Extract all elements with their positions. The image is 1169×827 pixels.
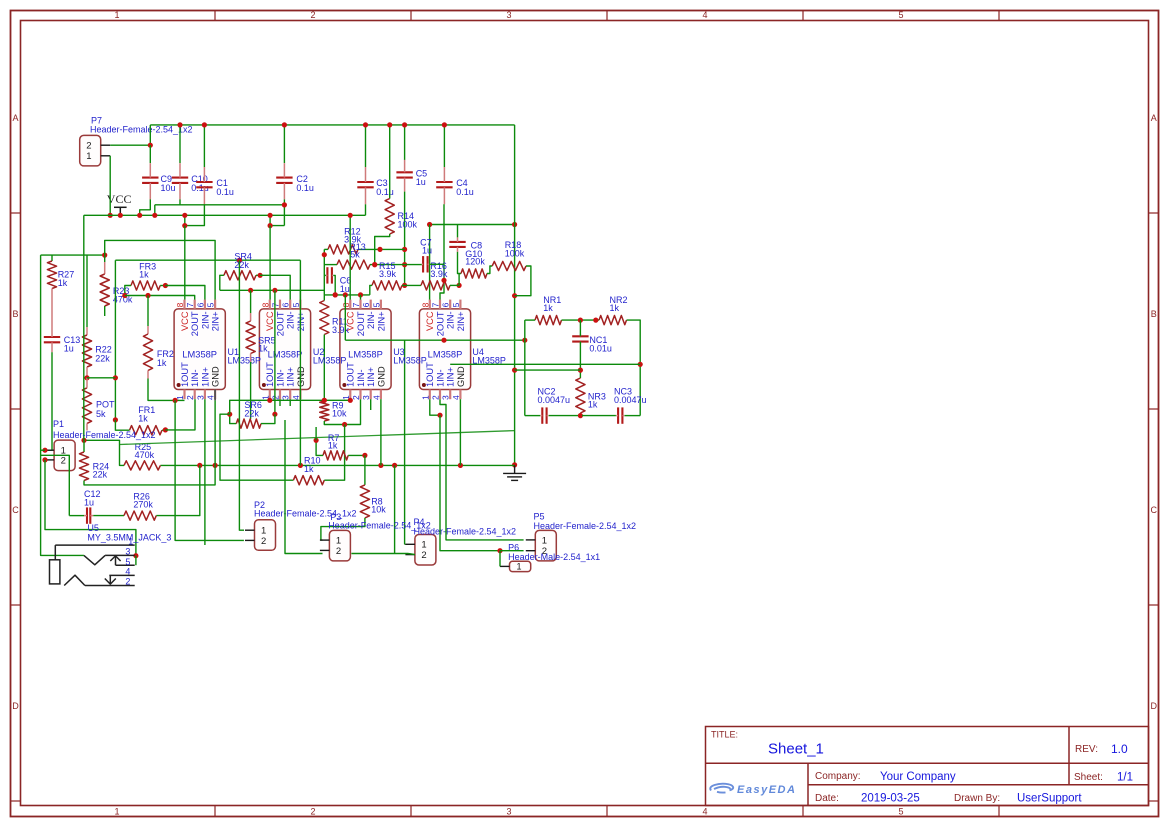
resistor R14 — [385, 199, 394, 235]
wire y440 wire — [84, 440, 120, 444]
wire FR2 top — [147, 296, 149, 327]
svg-text:LM358P: LM358P — [348, 350, 383, 360]
wire C8 top — [457, 225, 459, 238]
wire R15 left — [370, 285, 372, 295]
node 640/364 — [638, 362, 643, 367]
wire R12 right wire — [358, 248, 405, 250]
resistor R16 — [421, 281, 450, 290]
node VCC stem — [118, 213, 123, 218]
svg-text:470k: 470k — [135, 450, 155, 460]
svg-text:120k: 120k — [465, 256, 485, 266]
wire y290 wire — [220, 289, 324, 291]
capacitor C6 — [326, 267, 328, 283]
node NR3/bot — [578, 413, 583, 418]
svg-text:1/1: 1/1 — [1117, 772, 1133, 784]
wire R14 top lead — [389, 125, 391, 199]
wire FR3 right — [160, 285, 165, 287]
svg-text:5: 5 — [291, 302, 301, 307]
wire y264 wire — [370, 264, 423, 266]
wire U2.1 wire — [230, 400, 351, 414]
svg-text:10k: 10k — [332, 409, 347, 419]
svg-text:5: 5 — [898, 10, 903, 20]
svg-text:5: 5 — [125, 557, 130, 567]
node bus/C1 — [202, 122, 207, 127]
wire C7 right — [429, 263, 444, 265]
node SR6 right — [272, 412, 277, 417]
svg-text:B: B — [1151, 309, 1157, 319]
svg-text:1: 1 — [86, 151, 91, 162]
wire U1 GND drop — [214, 400, 216, 465]
wire v440 drop — [440, 415, 500, 551]
node bus/394 — [392, 463, 397, 468]
svg-text:5: 5 — [451, 302, 461, 307]
svg-text:4: 4 — [206, 395, 216, 400]
svg-text:1k: 1k — [139, 270, 149, 280]
wire y255 wire — [41, 254, 105, 256]
wire P1.2 path — [45, 460, 136, 556]
svg-text:1IN+: 1IN+ — [286, 367, 296, 387]
node 324/255 — [322, 252, 327, 257]
node bus/C3 — [363, 122, 368, 127]
node 400/R9 — [322, 398, 327, 403]
svg-text:A: A — [12, 113, 18, 123]
svg-text:2IN-: 2IN- — [200, 311, 210, 329]
node bus/R14 — [387, 122, 392, 127]
wire R8 top — [364, 455, 366, 485]
header — [54, 440, 75, 471]
resistor POT — [82, 388, 91, 424]
wire C5 column — [404, 192, 406, 286]
svg-text:4: 4 — [371, 395, 381, 400]
wire U4.1 path — [430, 399, 440, 415]
resistor NR1 — [535, 316, 562, 325]
svg-text:LM358P: LM358P — [393, 356, 427, 366]
resistor FR3 — [131, 281, 160, 290]
svg-text:Your Company: Your Company — [880, 771, 956, 783]
node R9b — [342, 422, 347, 427]
resistor R27 — [47, 261, 56, 289]
wire C9 bottom — [140, 199, 151, 215]
svg-text:4: 4 — [702, 806, 707, 816]
wire R8 bottom — [321, 518, 365, 540]
svg-text:LM358P: LM358P — [428, 350, 463, 360]
header P6 — [510, 561, 531, 571]
wire R24 bottom — [84, 465, 215, 485]
svg-text:2: 2 — [185, 395, 195, 400]
node FR1 right — [163, 427, 168, 432]
wire C8 bottom — [458, 252, 462, 274]
svg-text:1u: 1u — [422, 246, 432, 256]
svg-text:2IN-: 2IN- — [446, 311, 456, 329]
resistor FR1 — [130, 426, 163, 435]
node bus/C4 — [442, 122, 447, 127]
resistor NR2 — [599, 316, 627, 325]
svg-text:7: 7 — [431, 302, 441, 307]
svg-text:0.1u: 0.1u — [456, 187, 474, 197]
wire C3 bottom — [365, 204, 367, 215]
header P7 — [80, 135, 101, 166]
svg-text:3: 3 — [281, 395, 291, 400]
svg-text:REV:: REV: — [1075, 744, 1098, 755]
svg-text:P1: P1 — [53, 419, 64, 429]
node y224 right — [512, 222, 517, 227]
svg-text:Date:: Date: — [815, 793, 839, 804]
svg-text:0.01u: 0.01u — [589, 344, 612, 354]
svg-text:U5: U5 — [87, 523, 99, 533]
svg-text:3: 3 — [441, 395, 451, 400]
wire R14 bottom — [375, 234, 390, 265]
wire y429 wire — [165, 399, 195, 430]
svg-text:4: 4 — [702, 10, 707, 20]
svg-text:10u: 10u — [161, 183, 176, 193]
svg-text:22k: 22k — [95, 353, 110, 363]
op-amp U4 LM358P — [419, 300, 470, 400]
wire jack5 link — [135, 556, 137, 566]
svg-text:2: 2 — [61, 455, 66, 466]
svg-text:5k: 5k — [350, 249, 360, 259]
svg-text:1: 1 — [114, 10, 119, 20]
wire P2.2 drop — [175, 400, 244, 540]
wire U1 VCC drop — [184, 226, 186, 300]
svg-text:6: 6 — [361, 302, 371, 307]
capacitor C1 — [196, 181, 212, 183]
svg-text:1k: 1k — [328, 441, 338, 451]
svg-text:1k: 1k — [58, 278, 68, 288]
wire C12-R26 — [93, 515, 124, 517]
wire R23 top lead — [104, 255, 106, 262]
node 400/U2.1 — [267, 398, 272, 403]
wire left column 324 — [323, 249, 325, 300]
node col/249 — [402, 247, 407, 252]
svg-text:2OUT: 2OUT — [356, 311, 366, 336]
node 400/U3.1 — [348, 398, 353, 403]
svg-text:5: 5 — [206, 302, 216, 307]
wire NR1 left vert — [524, 320, 526, 416]
capacitor C4 — [436, 181, 452, 183]
node y340/NR1 — [522, 338, 527, 343]
wire R7 left — [316, 440, 323, 455]
wire NR2 right — [627, 320, 641, 416]
node SR4 right — [258, 273, 263, 278]
wire P7 pin1 drop — [109, 156, 111, 216]
wire R7 right — [348, 454, 365, 456]
svg-text:0.1u: 0.1u — [216, 187, 234, 197]
svg-text:22k: 22k — [234, 260, 249, 270]
wire FR1 right — [162, 429, 165, 431]
wire FR3 left — [125, 286, 131, 296]
node 294/C6 — [333, 292, 338, 297]
svg-text:GND: GND — [376, 366, 386, 387]
node C7/R16 — [441, 278, 446, 283]
wire C6 right down — [333, 275, 335, 295]
wire R12 left — [324, 248, 328, 250]
svg-text:1u: 1u — [64, 343, 74, 353]
wire C2 top lead — [283, 125, 285, 163]
header — [535, 530, 556, 561]
wire P5.2 link — [500, 550, 524, 552]
svg-text:6: 6 — [195, 302, 205, 307]
node R24 top — [81, 438, 86, 443]
node R7 left — [314, 438, 319, 443]
wire U2.3 stub — [289, 399, 291, 406]
resistor R10 — [293, 476, 324, 485]
wire y240 wire — [105, 240, 215, 299]
wire R22 top — [86, 255, 88, 327]
node C2 node — [282, 202, 287, 207]
svg-text:1IN-: 1IN- — [275, 369, 285, 387]
resistor R11 — [320, 301, 329, 335]
svg-text:5: 5 — [371, 302, 381, 307]
node R7 right — [362, 453, 367, 458]
svg-text:8: 8 — [260, 302, 270, 307]
node R12w — [377, 247, 382, 252]
op-amp U3 LM358P — [340, 300, 391, 400]
node U4.1 jog — [437, 413, 442, 418]
svg-text:LM358P: LM358P — [228, 356, 262, 366]
svg-text:3: 3 — [506, 10, 511, 20]
node 294/U3.7 — [358, 292, 363, 297]
wire POT link — [87, 377, 115, 379]
capacitor C10 — [172, 177, 188, 179]
svg-text:2IN+: 2IN+ — [456, 311, 466, 331]
svg-text:1k: 1k — [543, 303, 553, 313]
capacitor C9 — [142, 177, 158, 179]
svg-text:1.0: 1.0 — [1111, 742, 1128, 756]
capacitor C2 — [276, 177, 292, 179]
svg-text:0.1u: 0.1u — [376, 187, 394, 197]
node P1.1 — [42, 448, 47, 453]
wire U3.7 stub link — [360, 295, 362, 300]
wire P4.1 link — [404, 543, 407, 545]
wire P3 under-box — [351, 553, 408, 555]
node y290/SR5 — [248, 288, 253, 293]
node NR2 left — [593, 318, 598, 323]
wire SR6 v — [274, 290, 276, 414]
svg-text:6: 6 — [441, 302, 451, 307]
wire P3.2/P4.2 wire — [285, 420, 323, 554]
svg-text:1k: 1k — [157, 358, 167, 368]
wire rail drop left — [83, 215, 85, 452]
wire C3 top lead — [365, 125, 367, 167]
wire R15-R16 link — [405, 284, 421, 286]
header — [415, 535, 436, 566]
resistor G10 120k — [461, 269, 487, 278]
wire R13 left — [324, 264, 337, 266]
resistor FR2 — [143, 334, 152, 371]
resistor R25 — [124, 461, 160, 470]
svg-text:10k: 10k — [371, 504, 386, 514]
wire C10 jog — [154, 205, 156, 216]
wire U1.3 drop — [204, 399, 206, 545]
node FR3 right — [163, 283, 168, 288]
node 400/U1.1 — [173, 398, 178, 403]
resistor R8 — [360, 485, 369, 518]
wire C12 left — [69, 515, 84, 517]
wire FR3r to U1.6 — [165, 286, 205, 300]
node P1.2 — [42, 457, 47, 462]
node y224 left — [427, 222, 432, 227]
svg-text:2: 2 — [310, 806, 315, 816]
wire diagonal — [120, 431, 515, 445]
svg-text:1: 1 — [128, 536, 133, 546]
svg-text:4: 4 — [451, 395, 461, 400]
node col/264 — [402, 262, 407, 267]
wire R10 right — [324, 425, 344, 481]
svg-text:1OUT: 1OUT — [346, 362, 356, 387]
svg-text:1IN+: 1IN+ — [200, 367, 210, 387]
node bus/C5 — [402, 122, 407, 127]
wire R9 bottom wire — [324, 399, 360, 424]
node 294/elbow — [343, 292, 348, 297]
svg-text:GND: GND — [211, 366, 221, 387]
wire U3.3 stub — [370, 399, 372, 410]
svg-text:1k: 1k — [610, 303, 620, 313]
svg-text:3.9k: 3.9k — [332, 325, 350, 335]
node C10/rail — [152, 213, 157, 218]
svg-text:D: D — [1151, 701, 1158, 711]
svg-text:EasyEDA: EasyEDA — [737, 784, 796, 796]
capacitor NC3 — [617, 407, 619, 423]
svg-text:1: 1 — [517, 562, 522, 572]
svg-text:2OUT: 2OUT — [190, 311, 200, 336]
svg-text:1u: 1u — [84, 498, 94, 508]
node bus/299 — [298, 463, 303, 468]
svg-text:270k: 270k — [133, 500, 153, 510]
wire NR bottom wire L — [525, 415, 540, 417]
wire U4.2 path — [440, 399, 524, 540]
op-amp U1 LM358P — [174, 300, 225, 400]
svg-text:1k: 1k — [138, 414, 148, 424]
svg-text:2: 2 — [421, 550, 426, 561]
node y295/FR2 — [145, 293, 150, 298]
svg-text:4: 4 — [291, 395, 301, 400]
node C9/rail — [137, 213, 142, 218]
wire SR6 left lead — [230, 414, 237, 423]
svg-text:2: 2 — [336, 546, 341, 557]
wire v115 drop — [114, 260, 116, 420]
wire NR bottom wire R — [625, 415, 641, 417]
node 120k/R16 — [457, 283, 462, 288]
node col/285 — [402, 283, 407, 288]
svg-text:100k: 100k — [505, 249, 525, 259]
node R22/POT — [84, 375, 89, 380]
wire C2 jog to rail — [270, 215, 284, 225]
svg-text:3: 3 — [125, 547, 130, 557]
resistor R7 — [323, 451, 348, 460]
wire y340 wire — [345, 339, 525, 341]
svg-text:VCC: VCC — [425, 311, 435, 331]
capacitor C12 — [86, 507, 88, 523]
wire NC1 bottom — [579, 342, 581, 378]
resistor R24 — [79, 452, 88, 481]
node bus/R24 — [213, 463, 218, 468]
wire SR5 bottom ext — [250, 362, 252, 419]
wire U4 VCC drop — [429, 225, 431, 300]
svg-text:Header-Female-2.54_1x2: Header-Female-2.54_1x2 — [90, 124, 193, 134]
svg-text:0.1u: 0.1u — [296, 183, 314, 193]
svg-text:2IN+: 2IN+ — [376, 311, 386, 331]
svg-text:1OUT: 1OUT — [180, 362, 190, 387]
op-amp U2 LM358P — [259, 300, 310, 400]
svg-text:22k: 22k — [244, 409, 259, 419]
node y290/SR6v — [272, 288, 277, 293]
wire NR3 bottom — [579, 413, 581, 416]
wire C4 top lead — [443, 125, 445, 167]
node bus/R26 — [197, 463, 202, 468]
wire C1 top lead — [203, 125, 205, 167]
node C2/rail — [268, 213, 273, 218]
node C2 jog — [268, 223, 273, 228]
wire C6 left up — [324, 274, 326, 276]
svg-text:1: 1 — [542, 535, 547, 546]
node 115/377 — [113, 375, 118, 380]
wire R23 bottom — [104, 306, 106, 316]
node y255/R23 — [102, 253, 107, 258]
svg-text:1k: 1k — [588, 400, 598, 410]
U1 GND stub — [214, 390, 216, 401]
wire bus drop to P7.2 — [149, 125, 151, 145]
svg-text:2: 2 — [86, 141, 91, 152]
svg-text:Company:: Company: — [815, 771, 861, 782]
wire top bus — [150, 124, 514, 126]
wire P4.1 riser — [404, 340, 406, 544]
node bus/U3gnd — [378, 463, 383, 468]
wire y260 wire — [115, 259, 300, 261]
svg-text:D: D — [12, 701, 19, 711]
svg-text:1IN-: 1IN- — [356, 369, 366, 387]
node bus/C10 — [177, 122, 182, 127]
node v514/295 — [512, 293, 517, 298]
wire U4 GND drop — [459, 399, 461, 465]
svg-text:1OUT: 1OUT — [265, 362, 275, 387]
svg-text:1: 1 — [114, 806, 119, 816]
svg-text:1OUT: 1OUT — [425, 362, 435, 387]
svg-text:Drawn By:: Drawn By: — [954, 793, 1000, 804]
svg-text:3.9k: 3.9k — [379, 269, 397, 279]
resistor R22 — [82, 335, 91, 367]
wire VCC rail — [84, 214, 366, 216]
node R9 top — [322, 398, 327, 403]
wire SR4r to U2.6 — [260, 275, 290, 299]
svg-text:VCC: VCC — [265, 311, 275, 331]
svg-text:3.9k: 3.9k — [430, 269, 448, 279]
wire y205 link — [155, 204, 285, 206]
svg-text:Sheet:: Sheet: — [1074, 772, 1103, 783]
svg-text:1IN+: 1IN+ — [366, 367, 376, 387]
resistor R13 — [337, 260, 370, 269]
svg-text:5k: 5k — [96, 409, 106, 419]
wire P1.1 link — [41, 449, 45, 451]
svg-text:2: 2 — [431, 395, 441, 400]
svg-text:8: 8 — [420, 302, 430, 307]
node jack5 node — [133, 553, 138, 558]
svg-text:Header-Female-2.54_1x2: Header-Female-2.54_1x2 — [53, 430, 156, 440]
wire R25 left — [120, 445, 125, 466]
wire SR6 right lead — [261, 414, 275, 423]
svg-text:0.0047u: 0.0047u — [538, 395, 571, 405]
wire NR bottom wire M2 — [582, 415, 616, 417]
svg-text:1: 1 — [420, 395, 430, 400]
wire C4 bottom column — [440, 204, 444, 299]
wire C5 top lead — [404, 125, 406, 160]
wire SR4 left — [220, 275, 224, 290]
wire R26 right — [156, 465, 200, 515]
node SR6 left — [227, 412, 232, 417]
node C1/rail — [182, 213, 187, 218]
wire C1 bottom — [185, 204, 205, 225]
wire P2.1 drop — [239, 260, 244, 530]
wire long right vertical — [514, 125, 516, 465]
